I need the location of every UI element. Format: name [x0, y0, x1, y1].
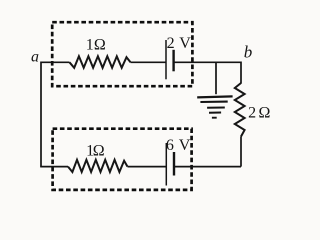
svg-text:2: 2 [167, 35, 175, 52]
svg-text:a: a [31, 49, 39, 66]
ground bar 2 [200, 101, 227, 104]
resistor R1 1 ohm (top branch) [70, 56, 131, 68]
svg-text:V: V [179, 137, 191, 154]
battery V2 6V long plate [165, 143, 167, 186]
wire: node b corner down to resistor R3 [240, 62, 242, 84]
battery V1 2V long plate [165, 40, 167, 79]
svg-text:V: V [179, 35, 191, 52]
wire: node a horizontal into top branch [41, 61, 70, 63]
ground stem [215, 62, 217, 94]
battery V2 6V short plate [173, 152, 175, 176]
dashed box: battery pack 1 (top) [52, 22, 192, 86]
resistor R2 1 ohm (bottom branch) [68, 160, 128, 172]
ground bar 1 [197, 96, 232, 97]
resistor R3 2 ohm (vertical) [235, 83, 245, 137]
wire: left vertical from node a down to bottom branch [40, 62, 42, 167]
ground bar 3 [207, 107, 225, 109]
wire: battery V1 to node b corner [174, 61, 241, 63]
battery V1 2V short plate [172, 50, 174, 72]
svg-text:Ω: Ω [93, 143, 105, 160]
wire: battery V2 to right vertical [174, 166, 241, 168]
svg-text:2: 2 [248, 104, 256, 121]
svg-text:Ω: Ω [259, 104, 271, 121]
dashed box: battery pack 2 (bottom) [53, 129, 192, 190]
ground bar 5 [212, 117, 217, 119]
svg-text:1: 1 [86, 36, 94, 53]
wire: bottom branch left segment [40, 166, 68, 168]
wire: R1 to battery V1 [131, 61, 167, 63]
wire: R2 to battery V2 [128, 166, 167, 168]
svg-text:Ω: Ω [94, 36, 106, 53]
wire: R3 down to bottom branch [240, 137, 242, 167]
svg-text:6: 6 [166, 137, 174, 154]
ground bar 4 [209, 112, 221, 114]
svg-text:b: b [244, 42, 253, 61]
